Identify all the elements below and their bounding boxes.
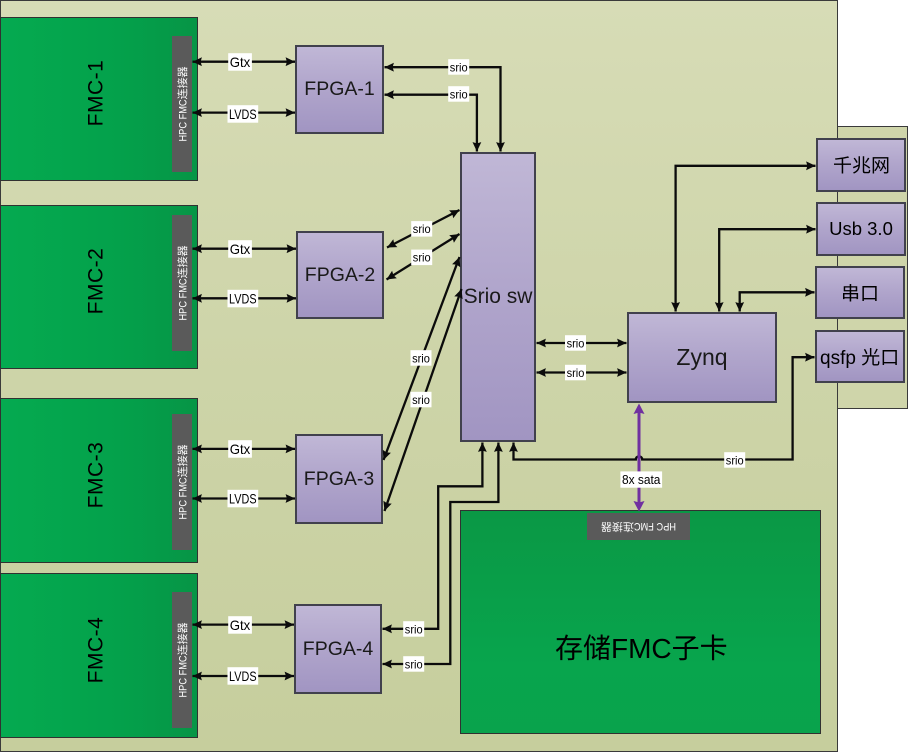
block Srio sw [460, 152, 536, 442]
block FPGA-1 [295, 45, 384, 134]
connector bar text of FMC-3 [175, 445, 189, 520]
block Gigabit Ethernet 千兆网 [816, 138, 906, 192]
svg-text:Gtx: Gtx [230, 441, 251, 457]
block FPGA-4 [294, 604, 382, 694]
wire Gtx FMC-2 to FPGA [193, 248, 297, 250]
HPC FMC connector bar of FMC-2 [172, 215, 192, 351]
svg-text:LVDS: LVDS [229, 668, 257, 684]
connector bar text of FMC-2 [175, 246, 189, 321]
svg-text:srio: srio [450, 87, 468, 101]
block FMC-2 [0, 205, 198, 369]
svg-text:srio: srio [567, 336, 585, 350]
wire srio FPGA-1 to Srio sw (upper) [385, 67, 501, 151]
block serial port 串口 [815, 266, 905, 319]
svg-text:srio: srio [726, 453, 744, 467]
svg-text:srio: srio [413, 222, 431, 236]
block FMC-3 [0, 398, 198, 563]
svg-text:Gtx: Gtx [230, 241, 251, 257]
label FMC-2 [36, 199, 156, 363]
block FPGA-2 [296, 231, 384, 319]
svg-text:srio: srio [567, 366, 585, 380]
svg-text:srio: srio [405, 657, 423, 671]
block FMC-4 [0, 573, 198, 738]
block qsfp optical port qsfp 光口 [815, 330, 905, 383]
right side panel strip [837, 126, 908, 409]
HPC FMC connector bar of FMC-3 [172, 414, 192, 550]
wire Zynq to Usb 3.0 [719, 229, 815, 311]
wire srio FPGA-3 to Srio sw (lower) [385, 289, 462, 511]
label FMC-4 [36, 567, 156, 732]
label FMC-3 [36, 392, 156, 557]
svg-text:LVDS: LVDS [229, 291, 257, 307]
svg-text:srio: srio [412, 393, 430, 407]
block Zynq [627, 312, 777, 403]
wire srio FPGA-2 to Srio sw (lower) [387, 234, 460, 280]
wire Gtx FMC-4 to FPGA [193, 623, 295, 625]
HPC FMC connector bar of FMC-4 [172, 592, 192, 728]
wire srio FPGA-1 to Srio sw (lower) [385, 95, 477, 152]
svg-text:Gtx: Gtx [230, 617, 251, 633]
svg-text:srio: srio [450, 60, 468, 74]
svg-text:8x sata: 8x sata [622, 472, 661, 487]
wire srio Srio sw to Zynq (upper) [537, 342, 627, 344]
HPC FMC connector bar of storage card (rotated 180) [587, 513, 690, 540]
wire srio FPGA-2 to Srio sw (upper) [387, 210, 460, 248]
block FMC-1 [0, 17, 198, 181]
wire srio FPGA-4 to Srio sw (lower) [383, 443, 499, 665]
wire Zynq to serial port [740, 292, 815, 311]
svg-text:LVDS: LVDS [229, 106, 257, 122]
wire srio Srio sw to qsfp optical port (with hop) [514, 357, 815, 459]
wire LVDS FMC-2 to FPGA [193, 297, 297, 299]
connector bar text of FMC-4 [175, 623, 189, 698]
wire srio Srio sw to Zynq (lower) [537, 371, 627, 373]
wire LVDS FMC-4 to FPGA [193, 675, 295, 677]
wire 8x sata Zynq to storage card (purple) [638, 406, 641, 508]
svg-text:srio: srio [413, 251, 431, 265]
block storage FMC daughter card 存储FMC子卡 [460, 510, 821, 734]
svg-text:Gtx: Gtx [230, 54, 251, 70]
wire LVDS FMC-1 to FPGA [193, 111, 296, 113]
wire Gtx FMC-3 to FPGA [193, 448, 296, 450]
HPC FMC connector bar of FMC-1 [172, 36, 192, 172]
svg-text:srio: srio [405, 622, 423, 636]
svg-text:srio: srio [412, 351, 430, 365]
wire Gtx FMC-1 to FPGA [193, 61, 296, 63]
wire Zynq to Gigabit Ethernet [676, 166, 816, 312]
wire srio FPGA-3 to Srio sw (upper) [384, 257, 460, 460]
label FMC-1 [36, 11, 156, 175]
block Usb 3.0 [816, 202, 906, 256]
wire srio FPGA-4 to Srio sw (upper) [383, 443, 483, 629]
connector bar text of FMC-1 [175, 67, 189, 142]
block FPGA-3 [295, 434, 383, 524]
svg-text:LVDS: LVDS [229, 491, 257, 507]
wire LVDS FMC-3 to FPGA [193, 497, 296, 499]
